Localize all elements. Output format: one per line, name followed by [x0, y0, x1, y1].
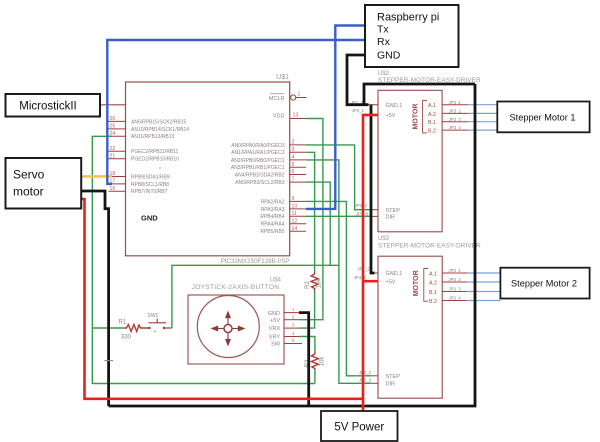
- svg-text:RPA2/RA2: RPA2/RA2: [261, 199, 285, 205]
- pin B.1 U3: [429, 287, 467, 296]
- svg-text:2: 2: [292, 314, 295, 319]
- svg-text:MOTOR: MOTOR: [413, 270, 420, 296]
- svg-text:VDD: VDD: [273, 114, 285, 120]
- svg-text:STEP: STEP: [386, 374, 401, 380]
- svg-text:AN11/RPB13/RB13: AN11/RPB13/RB13: [131, 134, 174, 140]
- svg-text:JP4_1: JP4_1: [354, 275, 367, 280]
- svg-text:JP3_4: JP3_4: [449, 296, 462, 301]
- svg-text:PIC32MX250F128B-I/SP: PIC32MX250F128B-I/SP: [221, 258, 290, 265]
- wire red tap to U3 +5V: [363, 280, 378, 283]
- wire green pin11 to U2 DIR: [306, 215, 371, 217]
- svg-text:B.2: B.2: [429, 299, 437, 305]
- svg-text:5: 5: [292, 162, 295, 168]
- pin VRY U4: [269, 331, 299, 341]
- svg-text:GND: GND: [141, 214, 158, 223]
- wire green pin2 to U2 STEP: [306, 145, 371, 210]
- wire lightblue U3 B.2 to stepper motor 2: [467, 300, 500, 302]
- svg-text:*: *: [159, 167, 161, 173]
- svg-text:JP3_1: JP3_1: [449, 100, 462, 105]
- svg-text:3: 3: [292, 323, 295, 328]
- svg-text:+5V: +5V: [386, 279, 396, 285]
- pin +5V U4: [270, 314, 299, 324]
- svg-text:4: 4: [292, 155, 295, 161]
- svg-text:JP3_2: JP3_2: [449, 109, 462, 114]
- svg-text:26: 26: [110, 116, 116, 122]
- wire black U2 GND to U3 GND.1: [371, 105, 375, 273]
- switch SW1: [148, 313, 172, 336]
- pin numbers U1 left: [110, 116, 116, 192]
- wire lightblue U2 B.2 to stepper motor 1: [468, 129, 497, 131]
- node motor bracket U2: [423, 100, 427, 132]
- wire green R3 bottom lead: [314, 369, 316, 384]
- node 5V Power box: [321, 411, 398, 441]
- wire green R1 left lead to pin24 net: [92, 327, 124, 329]
- node tick on servo ground wire: [104, 360, 113, 362]
- svg-text:R1: R1: [119, 320, 127, 326]
- wire lightblue U3 A.1 to stepper motor 2: [467, 272, 500, 274]
- svg-text:5V Power: 5V Power: [334, 422, 384, 434]
- svg-text:MOTOR: MOTOR: [413, 104, 420, 130]
- svg-text:JP3_3: JP3_3: [449, 117, 462, 122]
- pin numbers U1 right: [292, 140, 298, 232]
- pin stubs U1 right: [290, 145, 306, 231]
- wire yellow servo signal to pin18: [81, 175, 112, 178]
- pin VRX U4: [269, 323, 299, 333]
- wire blue raspberry Tx to pin10: [306, 26, 365, 209]
- svg-text:330: 330: [121, 335, 132, 341]
- svg-text:GND: GND: [268, 311, 280, 317]
- wire lightblue U2 A.2 to stepper motor 1: [468, 112, 497, 114]
- svg-text:MCLR: MCLR: [269, 96, 285, 102]
- joystick U4 stick circle: [197, 296, 259, 358]
- pin STEP U2: [355, 203, 400, 214]
- pin B.2 U2: [428, 125, 468, 134]
- joystick U4 title: [192, 278, 282, 292]
- wire green pin9 to U3 STEP: [306, 201, 371, 375]
- driver module U2 body: [378, 90, 442, 232]
- svg-text:22: 22: [110, 146, 116, 152]
- node motor bracket U3: [424, 269, 428, 302]
- wire green pin3 to R2: [306, 152, 315, 272]
- svg-text:JOYSTICK-2AXIS-BUTTON: JOYSTICK-2AXIS-BUTTON: [192, 284, 279, 291]
- svg-text:RPA4/RA4: RPA4/RA4: [261, 222, 285, 228]
- svg-text:A.1: A.1: [429, 271, 437, 277]
- pin B.2 U3: [429, 296, 467, 305]
- resistor R3 10k: [305, 352, 326, 369]
- svg-text:JP2_2: JP2_2: [359, 370, 372, 375]
- resistor R2 10k: [305, 272, 323, 291]
- svg-text:RPB4/RB4: RPB4/RB4: [260, 214, 284, 220]
- svg-text:AN5/RPB15/SCK2/RB15: AN5/RPB15/SCK2/RB15: [131, 119, 187, 125]
- wire lightblue U3 A.2 to stepper motor 2: [467, 281, 500, 283]
- svg-text:5: 5: [292, 338, 295, 343]
- svg-text:2: 2: [292, 140, 295, 146]
- svg-text:JP3_2: JP3_2: [449, 277, 462, 282]
- svg-text:AN2/RPB0/RB0/PGED1: AN2/RPB0/RB0/PGED1: [231, 158, 285, 164]
- node Raspberry pi box: [365, 5, 459, 67]
- svg-text:RPA3/RA3: RPA3/RA3: [261, 207, 285, 213]
- wire green pin7 down to SW1 net: [306, 182, 330, 265]
- svg-text:+5V: +5V: [386, 113, 396, 119]
- driver module U3 body: [378, 256, 442, 398]
- svg-text:13: 13: [293, 113, 299, 119]
- wire lightblue U2 B.1 to stepper motor 1: [468, 121, 497, 123]
- pin A.1 U3: [429, 268, 467, 277]
- wire green R2 to joystick VRX: [299, 291, 315, 329]
- svg-text:Raspberry pi: Raspberry pi: [377, 12, 439, 24]
- svg-text:AN0/RPA0/RA0/PGED3: AN0/RPA0/RA0/PGED3: [231, 143, 284, 149]
- joystick U4 arrows: [212, 312, 244, 345]
- svg-text:DIR: DIR: [386, 382, 396, 388]
- svg-text:+5V: +5V: [270, 318, 280, 324]
- svg-text:1: 1: [298, 92, 301, 98]
- svg-text:JP3_4: JP3_4: [449, 125, 462, 130]
- pin VDD U1: [273, 113, 307, 120]
- pin DIR U3: [359, 378, 395, 388]
- svg-text:B.1: B.1: [428, 120, 436, 126]
- svg-text:12: 12: [292, 218, 298, 224]
- svg-text:A.2: A.2: [428, 112, 436, 118]
- wire black joystick GND down: [299, 313, 309, 406]
- svg-text:9: 9: [292, 196, 295, 202]
- svg-text:25: 25: [110, 124, 116, 130]
- wire lightblue U3 B.1 to stepper motor 2: [467, 291, 500, 293]
- wire green pin24 long net down left side: [92, 136, 315, 383]
- svg-text:+: +: [154, 330, 157, 336]
- svg-text:11: 11: [292, 211, 297, 217]
- pin A.2 U3: [429, 277, 467, 286]
- svg-text:16: 16: [110, 186, 116, 192]
- pin STEP U3: [359, 370, 400, 380]
- pin labels U1 right: [231, 143, 285, 235]
- pin labels U1 left: [131, 119, 189, 195]
- svg-text:JP3_1: JP3_1: [449, 268, 462, 273]
- svg-text:AN5/RPB3/SCL2/RB3: AN5/RPB3/SCL2/RB3: [235, 180, 284, 186]
- svg-text:RPB7/INT0/RB7: RPB7/INT0/RB7: [131, 189, 168, 195]
- svg-text:MicrostickII: MicrostickII: [19, 101, 77, 113]
- svg-text:10k: 10k: [320, 356, 326, 367]
- pin stubs U1 left: [109, 121, 126, 191]
- svg-text:U$4: U$4: [270, 278, 282, 284]
- svg-text:R2: R2: [305, 281, 311, 289]
- svg-text:21: 21: [110, 153, 116, 159]
- pin A.2 U2: [428, 109, 468, 119]
- svg-text:SW: SW: [271, 342, 281, 348]
- wire red servo power: [81, 199, 363, 399]
- svg-text:10: 10: [292, 204, 298, 210]
- driver module U3 title: [378, 236, 481, 250]
- pin B.1 U2: [428, 117, 468, 126]
- svg-text:PGED2/RPB10/RB10: PGED2/RPB10/RB10: [131, 157, 179, 163]
- node Servo motor box: [6, 158, 82, 209]
- svg-text:GND.1: GND.1: [386, 271, 403, 277]
- svg-text:Stepper Motor 2: Stepper Motor 2: [511, 279, 577, 289]
- svg-text:B.2: B.2: [428, 129, 436, 135]
- svg-text:JP3_3: JP3_3: [449, 287, 462, 292]
- svg-text:A.2: A.2: [429, 280, 437, 286]
- wire green joystick VRY to R3: [299, 337, 315, 353]
- svg-text:B.1: B.1: [429, 290, 437, 296]
- svg-text:JP2_2: JP2_2: [355, 203, 368, 208]
- svg-text:Rx: Rx: [377, 36, 391, 48]
- svg-text:7: 7: [292, 177, 295, 183]
- svg-text:motor: motor: [13, 185, 44, 199]
- wire black servo motor ground: [81, 191, 108, 406]
- wire green SW1 horizontal net: [172, 265, 339, 328]
- svg-text:U$3: U$3: [378, 236, 390, 242]
- svg-text:RPB8/SCL1/RB8: RPB8/SCL1/RB8: [131, 182, 169, 188]
- svg-text:3: 3: [292, 147, 295, 153]
- svg-text:U$1: U$1: [276, 74, 289, 81]
- svg-text:DIR: DIR: [386, 215, 396, 221]
- node Stepper Motor 2 box: [500, 268, 589, 299]
- wire blue raspberry Rx to pin17: [107, 40, 365, 184]
- resistor R1 330: [119, 320, 149, 341]
- svg-text:Servo: Servo: [13, 168, 45, 182]
- wire black ground frame right: [109, 84, 475, 406]
- joystick U4 stick center: [224, 325, 232, 333]
- svg-text:AN1/RPA1/RA1/PGEC3: AN1/RPA1/RA1/PGEC3: [231, 150, 284, 156]
- svg-text:VRX: VRX: [269, 326, 281, 332]
- svg-text:Stepper Motor 1: Stepper Motor 1: [510, 113, 576, 123]
- pin GND.1 U2: [351, 100, 403, 109]
- wire red 5V power vertical to U2 +5V: [363, 115, 378, 411]
- svg-text:Tx: Tx: [377, 24, 389, 36]
- wire black ground frame top: [364, 84, 475, 105]
- svg-text:14: 14: [292, 226, 298, 232]
- svg-text:RPB9/SDA1/RB9: RPB9/SDA1/RB9: [131, 174, 170, 180]
- svg-text:STEPPER-MOTOR-EASY-DRIVER: STEPPER-MOTOR-EASY-DRIVER: [378, 243, 481, 250]
- svg-text:VRY: VRY: [269, 335, 281, 341]
- svg-text:RPB5/RB5: RPB5/RB5: [260, 229, 284, 235]
- svg-text:JP4_1: JP4_1: [352, 108, 365, 113]
- pin +5V U3: [354, 275, 396, 285]
- svg-text:1: 1: [292, 307, 295, 312]
- svg-text:AN10/RPB14/SCK1/RB14: AN10/RPB14/SCK1/RB14: [131, 127, 189, 133]
- svg-text:PGEC2/RPB11/RB11: PGEC2/RPB11/RB11: [131, 149, 179, 155]
- svg-text:4: 4: [292, 331, 295, 336]
- svg-text:GND.1: GND.1: [386, 103, 403, 109]
- pin DIR U2: [356, 211, 395, 220]
- svg-text:A.1: A.1: [428, 103, 436, 109]
- pin GND.1 U3: [357, 266, 402, 277]
- pin MCLR U1: [269, 92, 307, 103]
- svg-text:STEP: STEP: [386, 208, 401, 214]
- driver module U2 title: [378, 71, 481, 84]
- svg-text:AN3/RPB1/RB1/PGEC1: AN3/RPB1/RB1/PGEC1: [231, 165, 285, 171]
- joystick U4 body: [188, 295, 284, 364]
- svg-text:JP2_3: JP2_3: [359, 378, 372, 383]
- op-amp U1 PIC32 chip body: [126, 82, 290, 256]
- pin GND U4: [268, 307, 299, 317]
- wire green VDD to joystick +5V: [299, 119, 323, 320]
- wire black raspberry GND to U2 GND.1: [347, 55, 369, 105]
- svg-text:10k: 10k: [317, 278, 323, 289]
- wire lightblue U2 A.1 to stepper motor 1: [468, 104, 497, 106]
- wire green pin4 to U3 DIR: [306, 160, 371, 383]
- svg-text:AN4/RPB2/SDA2/RB2: AN4/RPB2/SDA2/RB2: [235, 172, 285, 178]
- svg-text:GND: GND: [377, 50, 401, 62]
- pin +5V U2: [352, 108, 396, 119]
- svg-text:6: 6: [292, 169, 295, 175]
- node Stepper Motor 1 box: [497, 102, 589, 133]
- svg-text:SW1: SW1: [148, 313, 159, 319]
- node MicrostickII box: [6, 94, 101, 117]
- pin A.1 U2: [428, 100, 468, 109]
- pin SW U4: [271, 338, 302, 348]
- wire brown MicrostickII to U1: [100, 104, 126, 106]
